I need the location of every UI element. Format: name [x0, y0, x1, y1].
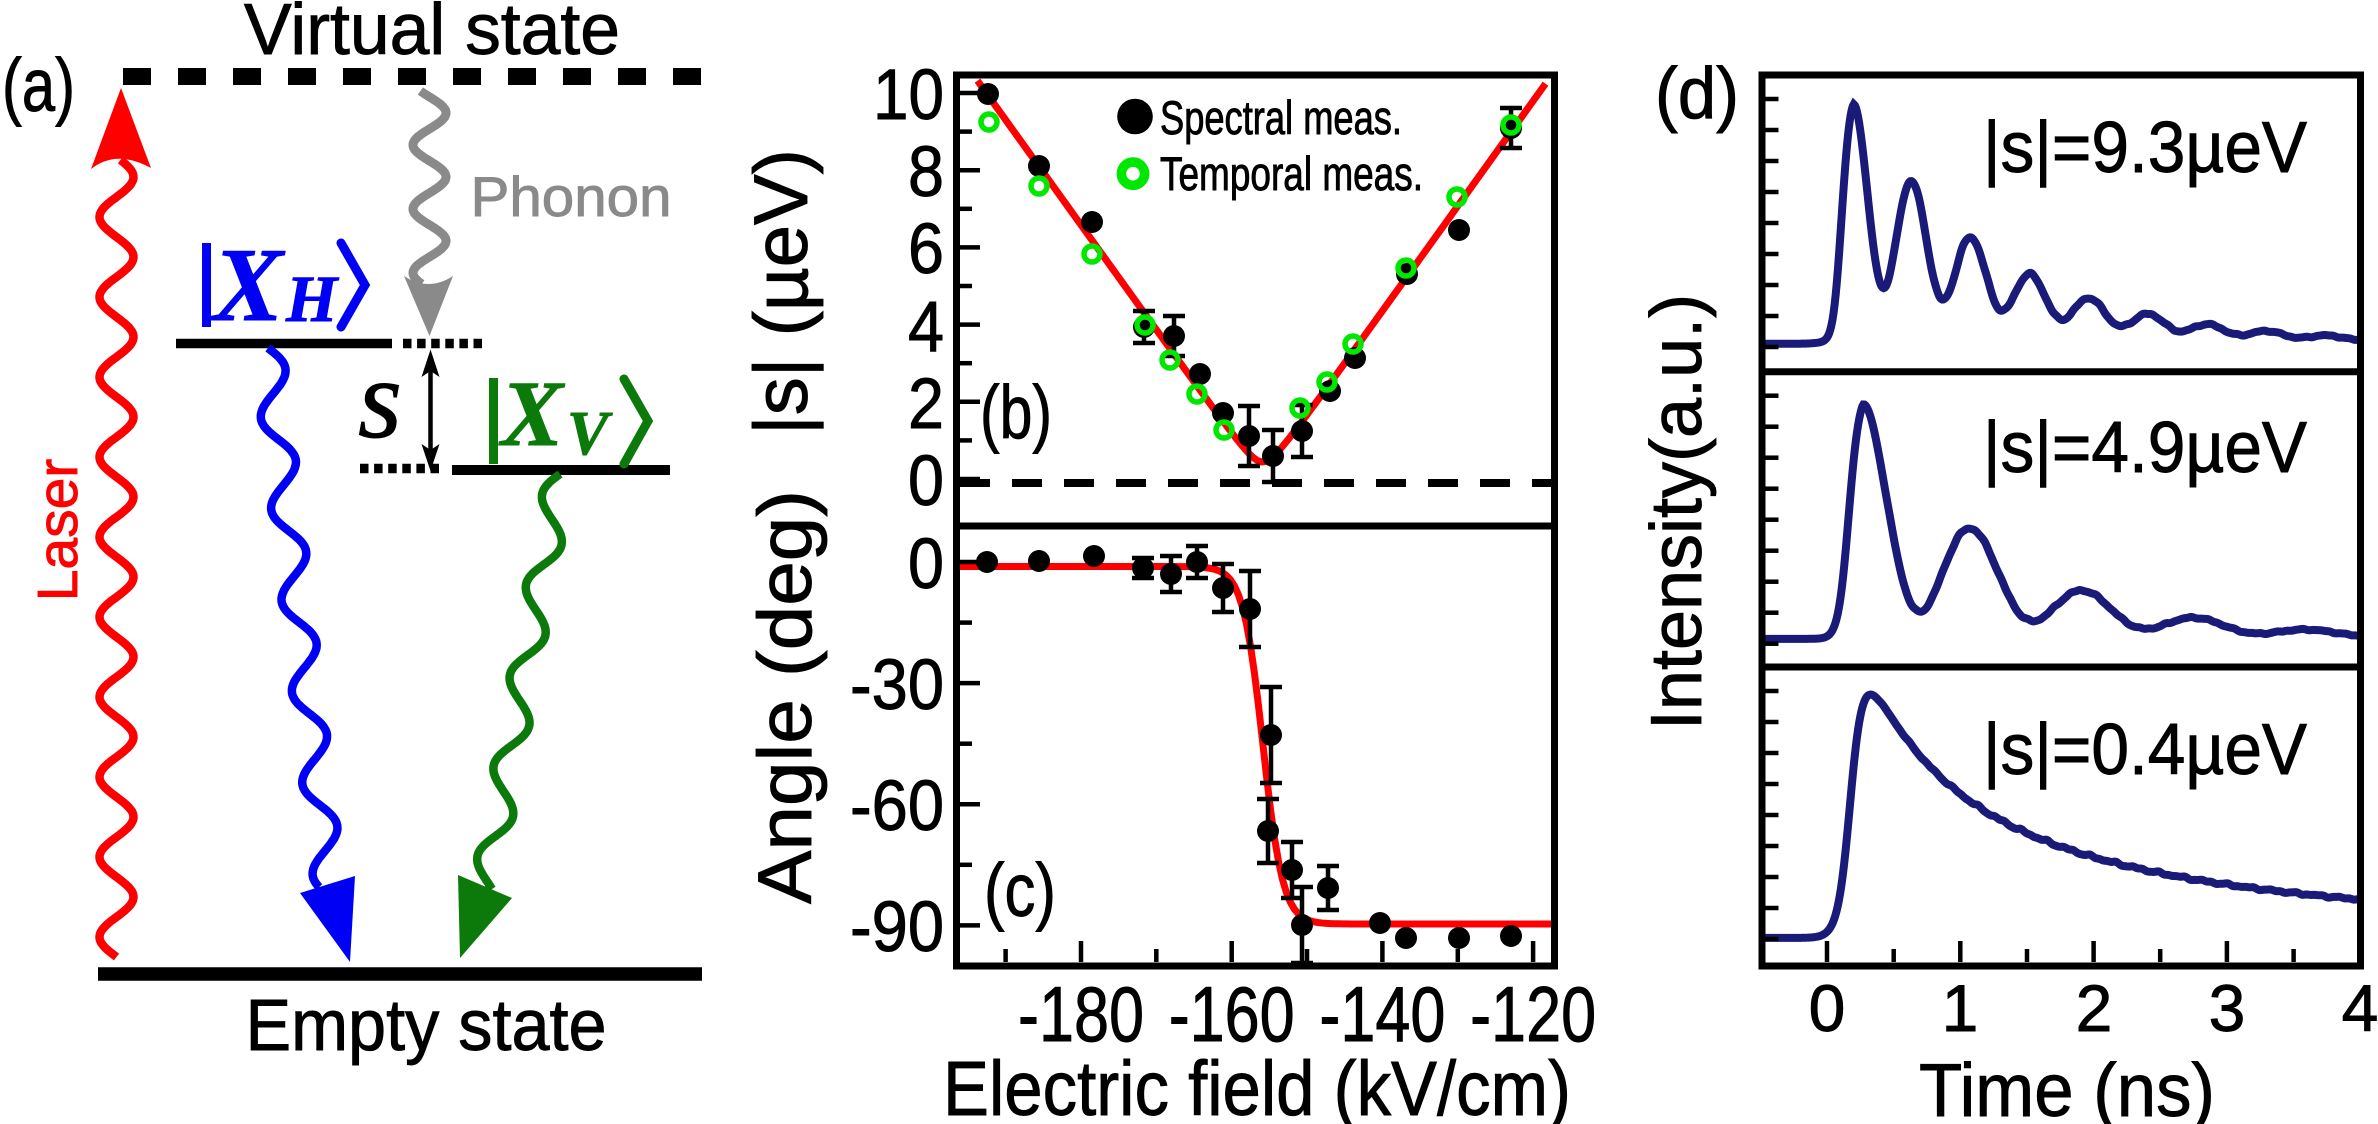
angle data points (c) black: [976, 551, 998, 573]
blue arrowhead: [300, 876, 355, 962]
recombination wavy arrow V (green): [477, 474, 562, 889]
svg-text:-140: -140: [1319, 970, 1445, 1058]
y tick labels (b): [873, 56, 944, 521]
red V fit curve (b): [978, 81, 1546, 462]
svg-text:|s|=9.3µeV: |s|=9.3µeV: [1983, 108, 2307, 188]
svg-text:3: 3: [2209, 971, 2246, 1045]
svg-text:Laser: Laser: [26, 459, 90, 602]
svg-text:Phonon: Phonon: [471, 165, 672, 228]
svg-text:-60: -60: [850, 767, 944, 846]
svg-text:|s| (µeV): |s| (µeV): [739, 149, 824, 435]
recombination wavy arrow H (blue): [261, 348, 338, 887]
svg-text:X: X: [498, 363, 565, 466]
red sigmoid fit curve (c): [959, 567, 1555, 925]
svg-text:V: V: [567, 400, 613, 468]
svg-text:1: 1: [1942, 971, 1979, 1045]
svg-text:Temporal meas.: Temporal meas.: [1160, 147, 1423, 200]
svg-text:(a): (a): [2, 43, 75, 127]
svg-text:0: 0: [1809, 971, 1846, 1045]
legend: spectral meas.: [1117, 99, 1153, 135]
svg-text:-180: -180: [1018, 970, 1144, 1058]
svg-text:Electric field (kV/cm): Electric field (kV/cm): [943, 1046, 1571, 1124]
svg-text:0: 0: [908, 525, 944, 604]
x tick labels (d): [1809, 971, 2378, 1045]
laser wavy arrow (red): [100, 160, 134, 957]
intensity trace |s|=0.4ueV (bottom): [1762, 695, 2360, 938]
x tick labels (b/c): [1018, 970, 1596, 1058]
svg-text:Spectral meas.: Spectral meas.: [1160, 91, 1402, 144]
svg-text:H: H: [285, 263, 340, 336]
intensity trace |s|=4.9ueV (middle): [1762, 404, 2360, 638]
axes box (d): [1762, 75, 2361, 966]
svg-text:-160: -160: [1169, 970, 1295, 1058]
svg-text:|s|=4.9µeV: |s|=4.9µeV: [1983, 408, 2307, 488]
intensity trace |s|=9.3ueV (top): [1762, 104, 2360, 344]
separator lines (d): [1759, 368, 2365, 375]
svg-text:Empty state: Empty state: [246, 986, 607, 1066]
svg-text:0: 0: [908, 442, 944, 521]
svg-text:4: 4: [2342, 971, 2378, 1045]
dashed zero line (b): [960, 479, 1551, 487]
svg-text:8: 8: [908, 133, 944, 212]
temporal data points (b) green rings: [981, 114, 997, 130]
svg-text:X: X: [210, 226, 286, 343]
green arrowhead: [458, 875, 512, 958]
X_V level line: [452, 465, 670, 475]
axis ticks (b)(c): [960, 91, 980, 96]
svg-text:(b): (b): [980, 370, 1052, 454]
legend: temporal meas.: [1121, 162, 1144, 185]
ticks (d): [1766, 97, 1779, 102]
y tick labels (c): [850, 525, 944, 967]
svg-text:10: 10: [873, 56, 944, 135]
X_V level dotted extension: [360, 464, 444, 474]
svg-text:-120: -120: [1470, 970, 1596, 1058]
svg-text:2: 2: [908, 365, 944, 444]
svg-text:(c): (c): [984, 848, 1056, 932]
svg-text:-30: -30: [850, 646, 944, 725]
svg-text:4: 4: [908, 288, 944, 367]
svg-text:6: 6: [908, 210, 944, 289]
ket |X_H> label (blue): [202, 226, 340, 343]
phonon arrowhead: [404, 276, 453, 336]
svg-text:Angle (deg): Angle (deg): [743, 490, 828, 904]
svg-text:|s|=0.4µeV: |s|=0.4µeV: [1983, 710, 2307, 790]
spectral data points (b) black: [977, 83, 999, 105]
svg-text:Time (ns): Time (ns): [1919, 1048, 2215, 1124]
svg-text:(d): (d): [1655, 54, 1739, 134]
svg-text:s: s: [358, 337, 402, 462]
svg-text:-90: -90: [850, 888, 944, 967]
X_H level line: [176, 339, 392, 349]
ket |X_V> label (green): [489, 363, 613, 468]
laser arrowhead: [91, 88, 151, 169]
separator line between (b) and (c): [953, 523, 1558, 530]
phonon wavy arrow (gray): [413, 91, 446, 284]
svg-text:2: 2: [2076, 971, 2113, 1045]
axes box (b)+(c): [957, 75, 1555, 966]
empty state level line: [98, 967, 702, 981]
splitting double arrow s: [428, 368, 433, 452]
svg-text:Intensity(a.u.): Intensity(a.u.): [1637, 294, 1717, 730]
X_H level dotted extension: [403, 339, 487, 349]
virtual state dashed level line: [123, 68, 702, 85]
svg-text:Virtual state: Virtual state: [244, 0, 620, 70]
